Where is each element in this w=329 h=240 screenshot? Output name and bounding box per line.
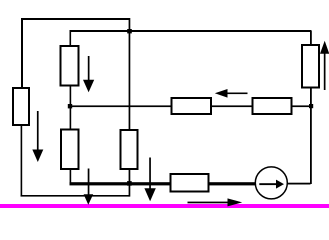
resistor mid-row right — [253, 98, 292, 114]
current arrow beside R1 (down) — [83, 56, 94, 92]
resistor lower-middle — [121, 130, 138, 169]
wire R1 top lead — [70, 32, 72, 45]
wire thick bottom bus — [70, 182, 256, 185]
current arrow bottom right (right) — [188, 198, 243, 206]
resistor right — [302, 45, 319, 88]
resistor left — [13, 88, 29, 125]
current arrow left branch (down) — [32, 111, 43, 162]
wire right vertical — [310, 31, 312, 184]
wire detour riser — [129, 185, 131, 197]
wire bottom detour horizontal — [21, 195, 130, 197]
magenta baseline — [0, 204, 329, 208]
wire below lower-left resistor — [70, 170, 72, 184]
wire second horizontal — [70, 30, 312, 32]
wire source to right vertical — [286, 183, 311, 185]
wire middle horizontal — [70, 105, 312, 107]
node dot middle right — [309, 104, 313, 108]
wire middle vertical — [129, 18, 131, 130]
node dot bottom — [127, 181, 132, 186]
resistor lower-left — [61, 130, 79, 170]
current arrow mid row (left) — [215, 89, 248, 98]
node dot middle left — [68, 104, 72, 108]
resistor mid-row left — [172, 98, 212, 114]
wire top horizontal — [21, 18, 130, 20]
resistor bottom — [171, 174, 209, 192]
current source arrow — [259, 180, 284, 189]
current arrow bottom middle (down) — [144, 158, 155, 202]
wire R1 bottom lead — [70, 86, 72, 106]
node dot upper middle — [127, 29, 132, 33]
wire below lower-middle resistor — [129, 170, 131, 184]
resistor R1 — [61, 46, 79, 86]
current arrow bottom left branch (down) — [84, 169, 94, 205]
wire node to lower-left resistor — [70, 106, 72, 129]
current arrow beside right resistor (up) — [320, 41, 329, 90]
wire left branch drop — [21, 126, 23, 197]
wire left vertical — [21, 18, 23, 87]
current source circle — [255, 167, 287, 199]
